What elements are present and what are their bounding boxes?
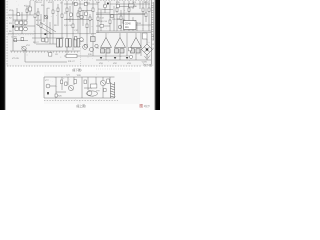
wire xyxy=(52,1,54,44)
resistor R63 xyxy=(146,48,148,50)
thyristor triangle row with dark box pairs xyxy=(101,38,142,48)
wire xyxy=(119,33,121,38)
wire xyxy=(111,91,115,92)
resistor R70 xyxy=(55,94,57,97)
diode VD7 xyxy=(100,57,103,59)
wire xyxy=(81,77,83,98)
svg-text:2续下: 2续下 xyxy=(144,104,151,108)
wire xyxy=(29,1,31,15)
svg-text:R18 C14: R18 C14 xyxy=(99,21,108,23)
thyristor VS2 xyxy=(115,38,126,48)
wire xyxy=(111,96,115,97)
resistor R35 xyxy=(85,45,88,48)
svg-text:R11 C7: R11 C7 xyxy=(68,61,76,63)
scattered tiny text labels xyxy=(9,2,155,65)
wire xyxy=(109,77,111,82)
wire xyxy=(64,55,133,57)
IC box top right xyxy=(124,21,137,30)
resistor R57 xyxy=(101,49,105,53)
transistor Q18 xyxy=(87,91,98,96)
left cluster of small component boxes x10-30 y20-34 xyxy=(15,21,27,30)
wire xyxy=(144,47,150,53)
svg-text:(接上图): (接上图) xyxy=(76,104,86,108)
transistor Q9 xyxy=(90,48,94,52)
wire xyxy=(73,77,75,85)
wire xyxy=(96,30,151,32)
wire xyxy=(28,51,31,53)
transistor Q10 (left cluster) xyxy=(24,27,28,31)
diode VD8 xyxy=(114,57,117,59)
resistor R55 xyxy=(129,4,135,7)
svg-text:6V R7: 6V R7 xyxy=(36,20,42,22)
resistor R20 xyxy=(92,8,94,12)
resistor R16 xyxy=(79,8,81,12)
wire xyxy=(110,82,112,98)
resistor R1 xyxy=(29,7,32,11)
wire xyxy=(96,12,110,14)
resistor R27 xyxy=(123,20,125,24)
wire xyxy=(96,14,146,16)
wire xyxy=(152,2,154,40)
resistor R45 xyxy=(19,21,22,24)
page background xyxy=(0,0,160,110)
resistor R31 xyxy=(148,8,150,12)
wire xyxy=(16,51,19,53)
transistor Q17 xyxy=(100,80,105,85)
wire xyxy=(13,40,28,42)
resistor R15 xyxy=(77,13,79,16)
svg-text:R14 C11: R14 C11 xyxy=(66,19,75,21)
wire xyxy=(84,87,92,89)
wire xyxy=(140,33,142,56)
resistor R4 xyxy=(17,13,20,16)
wire xyxy=(111,89,115,90)
transistor Q4 xyxy=(22,46,26,50)
resistor R18 xyxy=(86,24,88,28)
svg-text:R8 C7: R8 C7 xyxy=(33,42,40,44)
resistor R52 xyxy=(21,38,24,41)
resistor R50 xyxy=(91,37,96,42)
resistor R29 xyxy=(142,8,144,12)
resistor R59 xyxy=(115,49,119,53)
resistor R34 xyxy=(66,54,77,57)
scan speckle noise xyxy=(12,1,150,102)
wire xyxy=(111,86,115,87)
left page-edge black bar xyxy=(0,0,6,110)
transistor Q11 xyxy=(110,14,114,18)
wire xyxy=(123,1,125,31)
resistor R62 xyxy=(136,49,140,53)
resistor R7 xyxy=(37,12,39,15)
resistor R44 xyxy=(15,21,18,24)
wire verticals mid-left xyxy=(34,1,36,44)
ground-bus tick marks along y51 xyxy=(11,51,78,53)
wire xyxy=(58,51,61,53)
wire xyxy=(46,8,48,40)
transistor Q5 xyxy=(44,15,48,19)
wire horizontals xyxy=(64,3,98,5)
wire xyxy=(139,1,141,9)
wire xyxy=(152,21,154,23)
thyristor VS1 xyxy=(101,38,112,48)
electrolytic capacitor pair C31 xyxy=(57,39,63,48)
wire xyxy=(96,32,151,34)
wire xyxy=(89,14,91,33)
svg-text:(接下图): (接下图) xyxy=(72,68,82,72)
resistor R64 xyxy=(129,48,132,51)
wire xyxy=(86,1,88,44)
wire xyxy=(67,77,69,85)
wire xyxy=(44,97,115,99)
wire xyxy=(21,12,23,34)
wire xyxy=(105,53,107,60)
wire xyxy=(69,86,73,90)
wire xyxy=(69,6,71,22)
resistor R61 xyxy=(131,49,135,53)
lamp bubble top centre xyxy=(103,4,106,8)
wire xyxy=(70,51,73,53)
resistor R69 xyxy=(107,79,110,83)
thyristor VS3 xyxy=(131,38,142,48)
node A (junction dot) xyxy=(12,25,14,27)
wire xyxy=(117,6,129,8)
wire xyxy=(22,51,25,53)
resistor R33 xyxy=(49,53,52,57)
wire xyxy=(146,55,148,58)
resistor R60 xyxy=(120,49,124,53)
wire verticals right-centre xyxy=(97,2,99,33)
resistor R68 xyxy=(84,80,86,84)
wire xyxy=(56,91,66,93)
resistor R3 xyxy=(85,2,88,6)
resistor R23 xyxy=(109,20,111,24)
wire xyxy=(13,19,27,21)
svg-text:(续下图): (续下图) xyxy=(144,63,153,67)
resistor R6 xyxy=(34,14,36,18)
node B (junction dot) xyxy=(44,33,46,35)
wire xyxy=(109,1,111,31)
wire xyxy=(101,81,105,85)
wire xyxy=(87,77,89,90)
resistor R60 xyxy=(45,38,48,42)
second section bottom dashed border xyxy=(44,100,118,102)
wire xyxy=(40,14,42,38)
wire xyxy=(82,10,84,26)
main section bottom dashed border xyxy=(7,65,141,67)
resistor R30 xyxy=(145,13,147,17)
wire verticals left block xyxy=(12,10,14,51)
wire xyxy=(64,19,93,21)
resistor R14 xyxy=(72,24,74,28)
resistor R5 xyxy=(26,9,28,12)
transistor Q12 xyxy=(118,25,121,28)
output transformer at right of second section xyxy=(111,82,115,98)
wire xyxy=(111,94,115,95)
transistor Q7 xyxy=(80,15,84,19)
diagonal wires mid band xyxy=(36,24,52,34)
wire xyxy=(105,33,107,38)
resistor R67 xyxy=(74,80,76,84)
component boxes (resistors/caps) xyxy=(17,2,150,57)
svg-text:R5 C4: R5 C4 xyxy=(36,2,43,4)
resistor R11 xyxy=(61,14,63,17)
transistor Q15 xyxy=(68,85,73,90)
ground symbol right area xyxy=(145,56,150,60)
wire xyxy=(8,33,96,35)
resistor R32 xyxy=(143,33,148,39)
resistor R66 xyxy=(65,82,67,86)
wire xyxy=(26,6,28,20)
wire xyxy=(146,39,148,44)
resistor R71 xyxy=(91,84,97,88)
wire xyxy=(72,1,74,50)
wire xyxy=(152,16,154,18)
wire xyxy=(117,18,124,20)
wire xyxy=(110,3,150,5)
wire xyxy=(44,76,115,78)
wire xyxy=(145,1,147,22)
wire xyxy=(76,51,79,53)
scan gray veil over main schematic xyxy=(7,0,154,66)
svg-text:C4 R4: C4 R4 xyxy=(11,36,18,38)
wire xyxy=(80,10,93,12)
wire xyxy=(96,59,151,61)
wire xyxy=(152,26,154,28)
resistor R2 xyxy=(75,2,78,6)
resistor R49 xyxy=(75,37,77,40)
svg-text:CD40: CD40 xyxy=(125,23,132,25)
electrolytic capacitor pair C32 xyxy=(66,39,72,48)
main section top dashed border xyxy=(30,0,151,2)
transistor Q13 xyxy=(129,55,132,58)
wire xyxy=(144,47,150,53)
resistor R17 xyxy=(85,12,88,15)
wire xyxy=(57,4,59,26)
wire xyxy=(13,25,35,27)
svg-text:VT5 R9: VT5 R9 xyxy=(12,58,20,60)
transistor Q16 xyxy=(87,91,92,96)
second section transistors xyxy=(46,80,106,96)
wire xyxy=(16,8,18,20)
resistor R65 xyxy=(61,80,63,84)
wire xyxy=(32,37,64,39)
resistor R25 xyxy=(116,8,118,12)
wire xyxy=(132,1,134,9)
wire xyxy=(43,1,45,22)
resistor R58 xyxy=(106,49,110,53)
wire xyxy=(40,51,43,53)
wire xyxy=(50,85,56,87)
wire xyxy=(8,14,33,16)
resistor R9 xyxy=(52,10,54,14)
wire xyxy=(104,1,106,13)
wire xyxy=(96,68,132,70)
bridge rectifier diamond xyxy=(142,39,153,58)
resistor R46 xyxy=(24,21,27,24)
wire xyxy=(77,10,79,33)
resistor R28 xyxy=(128,8,130,11)
wire xyxy=(120,10,122,31)
wire xyxy=(22,47,27,51)
hatched connector bus at right edge xyxy=(152,2,154,40)
resistor R12 xyxy=(66,8,68,12)
wire verticals centre xyxy=(66,1,68,56)
resistor R24 xyxy=(116,4,119,7)
wire xyxy=(132,17,134,31)
wire xyxy=(64,51,67,53)
wire xyxy=(135,53,137,60)
right page-edge black bar xyxy=(154,0,160,110)
resistor R61 xyxy=(104,89,107,92)
diode VD9 xyxy=(126,57,129,59)
wire xyxy=(152,31,154,33)
main section left dashed border xyxy=(6,1,8,66)
svg-text:R1 C3: R1 C3 xyxy=(24,5,31,7)
wire xyxy=(116,1,118,31)
wire xyxy=(119,53,121,60)
wire xyxy=(113,6,115,31)
wire xyxy=(79,1,81,44)
wire xyxy=(10,51,13,53)
resistor R72 xyxy=(47,92,49,94)
wire xyxy=(152,36,154,38)
wire xyxy=(55,77,57,98)
wire xyxy=(95,77,97,84)
wire xyxy=(152,2,154,4)
electrolytic capacitor pair C33 xyxy=(74,39,80,48)
wire xyxy=(36,43,62,45)
wires from triangle row down xyxy=(106,33,136,60)
wire xyxy=(40,22,56,32)
resistor R8 xyxy=(40,24,42,27)
transistor Q10 xyxy=(95,44,98,47)
scan gray veil over lower section xyxy=(44,72,140,104)
transistor Q8 xyxy=(83,45,88,50)
resistor R48 xyxy=(19,27,22,30)
wire xyxy=(92,1,94,56)
bridge rectifier B1 xyxy=(142,44,153,55)
wire xyxy=(61,77,63,90)
wire xyxy=(43,77,45,98)
transistor Q6 xyxy=(41,38,45,42)
main section right border double line xyxy=(151,0,153,64)
wire xyxy=(100,10,102,31)
wire xyxy=(34,51,37,53)
wire xyxy=(152,7,154,9)
wire xyxy=(44,15,48,19)
wire xyxy=(114,82,116,98)
resistor R10 xyxy=(57,8,59,12)
wire xyxy=(152,12,154,14)
wire xyxy=(135,33,137,38)
second section component boxes xyxy=(55,79,109,97)
wire xyxy=(25,51,67,62)
wire xyxy=(96,47,99,49)
wire xyxy=(10,50,80,52)
wire xyxy=(128,1,130,31)
wire xyxy=(148,1,150,31)
resistor R21 xyxy=(97,17,99,20)
resistor R19 xyxy=(89,17,91,20)
wire xyxy=(98,8,113,11)
wire xyxy=(102,77,104,80)
transistor circles xyxy=(22,14,122,51)
wire xyxy=(49,22,51,44)
resistor R13 xyxy=(70,13,72,16)
wire xyxy=(46,51,49,53)
wire xyxy=(102,86,104,98)
wire xyxy=(61,1,63,41)
dotted line under cluster xyxy=(8,34,34,36)
resistor R22 xyxy=(100,25,104,28)
wire xyxy=(37,8,39,26)
wire xyxy=(126,33,128,56)
wire xyxy=(80,44,82,66)
resistor R47 xyxy=(15,27,18,30)
wire xyxy=(111,84,115,85)
wire xyxy=(136,22,138,31)
second section labels xyxy=(45,75,101,98)
wire xyxy=(142,1,144,31)
wire xyxy=(64,12,67,14)
extra mid-band components xyxy=(14,37,95,42)
transistor Q14 xyxy=(46,84,50,88)
wire xyxy=(96,25,110,27)
wire xyxy=(129,24,151,26)
transistor Q1 xyxy=(80,38,84,42)
resistor R26 xyxy=(120,16,122,19)
resistor R56 xyxy=(107,3,109,5)
resistor R51 xyxy=(14,39,17,42)
wire xyxy=(52,51,55,53)
svg-text:11A: 11A xyxy=(125,26,129,29)
